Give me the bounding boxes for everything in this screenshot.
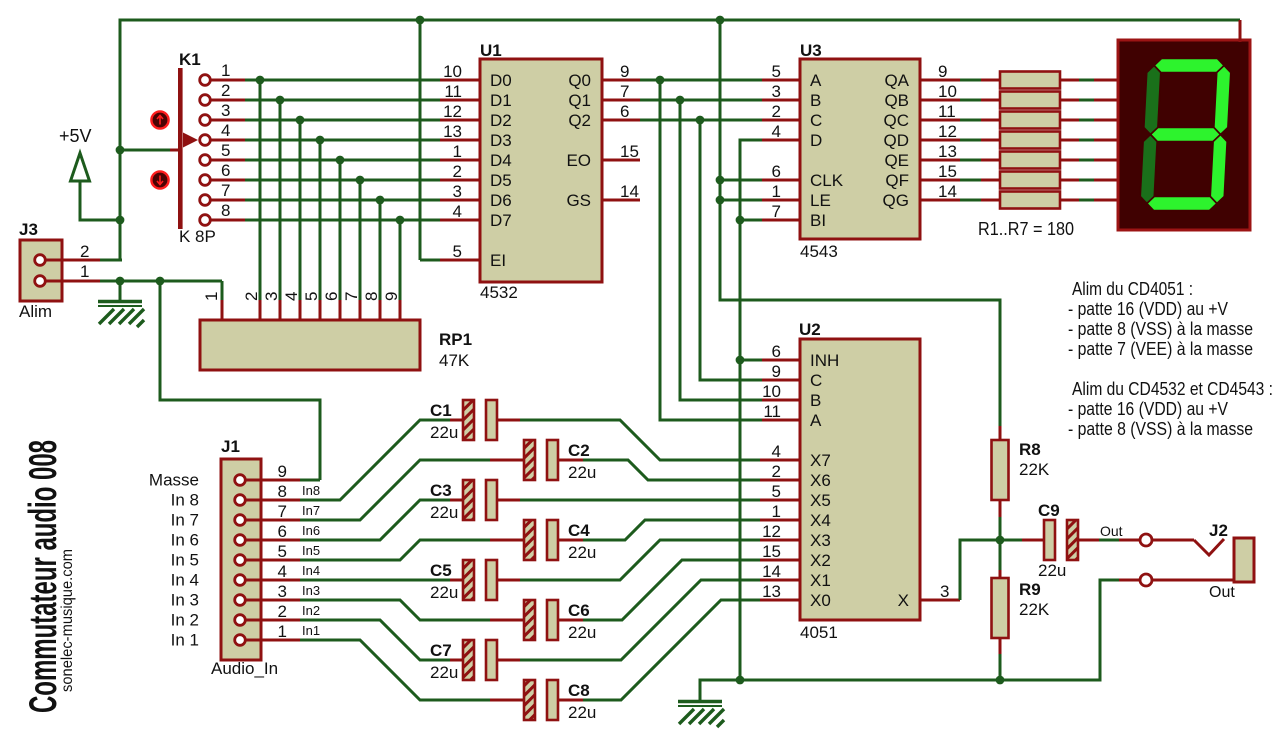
wire J1 pin9 to ground drop xyxy=(300,479,320,482)
capacitor C2 22u xyxy=(524,440,558,480)
capacitor C8 22u xyxy=(524,680,558,720)
resistor R4 xyxy=(1000,132,1060,149)
svg-text:U3: U3 xyxy=(800,41,822,60)
wire to U3 LE xyxy=(720,199,762,202)
wire In3 to C6 xyxy=(300,600,490,620)
svg-text:2: 2 xyxy=(80,242,89,261)
svg-text:C6: C6 xyxy=(568,601,590,620)
svg-text:9: 9 xyxy=(382,292,401,301)
svg-text:In7: In7 xyxy=(302,503,320,518)
U1 EI pin stub xyxy=(440,259,480,262)
svg-text:9: 9 xyxy=(938,62,947,81)
wire In4 to C5 xyxy=(300,579,450,582)
U3 QE pin stub xyxy=(920,159,960,162)
wire vertical to RP1 pin 2 xyxy=(259,80,262,300)
wire C5 to X3 xyxy=(520,540,760,580)
RP1 pin 5 stub xyxy=(319,300,322,321)
svg-text:C5: C5 xyxy=(430,561,452,580)
J1 pin 2 stub xyxy=(246,619,300,622)
svg-text:9: 9 xyxy=(278,462,287,481)
K1 contact circle 1 xyxy=(200,75,211,86)
svg-text:Alim: Alim xyxy=(19,302,52,321)
svg-text:1: 1 xyxy=(772,182,781,201)
svg-text:C: C xyxy=(810,371,822,390)
wire K1-3 to U1 D2 xyxy=(245,119,440,122)
svg-text:X3: X3 xyxy=(810,531,831,550)
svg-text:C8: C8 xyxy=(568,681,590,700)
svg-text:In 1: In 1 xyxy=(171,631,199,650)
wire U1 Q0 to U3 xyxy=(640,79,762,82)
resistor R2 xyxy=(1000,92,1060,109)
svg-text:B: B xyxy=(810,91,821,110)
svg-text:1: 1 xyxy=(278,622,287,641)
U1 EO pin stub xyxy=(602,159,640,162)
J1 pad 1 xyxy=(235,635,246,646)
C2 left lead xyxy=(490,459,524,462)
svg-text:B: B xyxy=(810,391,821,410)
capacitor C5 22u xyxy=(463,560,497,600)
J1 pad 7 xyxy=(235,515,246,526)
svg-text:13: 13 xyxy=(762,582,781,601)
connector J2 body xyxy=(1234,538,1254,582)
K1 down button xyxy=(151,171,168,188)
wire Q2 to U2 C xyxy=(700,120,762,380)
svg-text:D4: D4 xyxy=(490,151,512,170)
svg-text:6: 6 xyxy=(620,102,629,121)
svg-text:EI: EI xyxy=(490,251,506,270)
svg-text:2: 2 xyxy=(221,81,230,100)
junction INH / ground bus xyxy=(736,356,745,365)
svg-text:8: 8 xyxy=(362,292,381,301)
svg-text:INH: INH xyxy=(810,351,839,370)
RP1 pin 6 stub xyxy=(339,300,342,321)
svg-text:4051: 4051 xyxy=(800,623,838,642)
C8 left lead xyxy=(490,699,524,702)
wire C6 to X2 xyxy=(583,560,760,620)
U2 X pin stub row 480 xyxy=(760,479,800,482)
resistor R1 xyxy=(1000,72,1060,89)
svg-text:QB: QB xyxy=(884,91,909,110)
U2 A pin stub xyxy=(762,419,800,422)
svg-text:Alim du CD4532 et CD4543 :: Alim du CD4532 et CD4543 : xyxy=(1072,379,1273,399)
U2 B pin stub xyxy=(762,399,800,402)
svg-text:2: 2 xyxy=(278,602,287,621)
U1 Q2 pin stub xyxy=(602,119,640,122)
wire R9 to ground rail xyxy=(999,654,1002,680)
svg-text:X4: X4 xyxy=(810,511,831,530)
svg-text:11: 11 xyxy=(938,102,956,121)
C1 left lead xyxy=(450,419,463,422)
U3 QF pin stub xyxy=(920,179,960,182)
svg-text:12: 12 xyxy=(938,122,957,141)
capacitor C1 22u xyxy=(463,400,497,440)
C7 left lead xyxy=(450,659,463,662)
svg-text:6: 6 xyxy=(322,292,341,301)
U3 CLK pin stub xyxy=(762,179,800,182)
svg-text:In3: In3 xyxy=(302,583,320,598)
U2 INH pin stub xyxy=(762,359,800,362)
junction row 220 / RP1 drop xyxy=(396,216,405,225)
junction Q2 / U2 address drop xyxy=(696,116,705,125)
svg-text:D3: D3 xyxy=(490,131,512,150)
svg-text:3: 3 xyxy=(221,101,230,120)
svg-text:3: 3 xyxy=(940,582,949,601)
junction ground bus / rail xyxy=(736,676,745,685)
U2 X pin stub row 500 xyxy=(760,499,800,502)
wire resistor to display row 80 xyxy=(1079,79,1094,82)
svg-text:7: 7 xyxy=(620,82,629,101)
wire +5V top rail and left vertical to J3 pin 2 xyxy=(100,20,1240,260)
svg-text:22u: 22u xyxy=(430,423,458,442)
svg-text:A: A xyxy=(810,71,822,90)
svg-text:K1: K1 xyxy=(179,50,201,69)
wire U1 Q2 to U3 xyxy=(640,119,762,122)
svg-text:X5: X5 xyxy=(810,491,831,510)
svg-text:5: 5 xyxy=(221,141,230,160)
svg-text:47K: 47K xyxy=(439,351,470,370)
svg-text:QC: QC xyxy=(884,111,910,130)
RP1 pin 1 stub xyxy=(221,300,224,321)
display pin stub row 200 xyxy=(1094,199,1119,202)
svg-text:8: 8 xyxy=(278,482,287,501)
svg-text:RP1: RP1 xyxy=(439,330,472,349)
junction row 180 / RP1 drop xyxy=(356,176,365,185)
svg-text:R8: R8 xyxy=(1019,440,1041,459)
display pin stub row 140 xyxy=(1094,139,1119,142)
svg-text:C9: C9 xyxy=(1038,501,1060,520)
svg-text:J1: J1 xyxy=(221,437,240,456)
junction row 100 / RP1 drop xyxy=(276,96,285,105)
IC U1 4532 body xyxy=(480,59,602,282)
svg-text:- patte 16 (VDD) au +V: - patte 16 (VDD) au +V xyxy=(1068,299,1228,319)
J1 pad 3 xyxy=(235,595,246,606)
svg-text:10: 10 xyxy=(443,62,462,81)
wire In7 to C2 xyxy=(300,460,490,520)
U3 QC pin stub xyxy=(920,119,960,122)
junction Q1 / U2 address drop xyxy=(676,96,685,105)
svg-text:12: 12 xyxy=(762,522,781,541)
junction BI / ground bus xyxy=(736,216,745,225)
svg-text:Out: Out xyxy=(1209,584,1235,601)
wire vertical to RP1 pin 9 xyxy=(399,220,402,300)
wire Q1 to U2 B xyxy=(680,100,762,400)
wire C4 to X4 xyxy=(583,520,760,540)
U2 X pin stub row 560 xyxy=(760,559,800,562)
wire audio ground to J1 pin 9 xyxy=(160,281,320,480)
svg-text:K 8P: K 8P xyxy=(179,227,216,246)
svg-text:In 6: In 6 xyxy=(171,531,199,550)
U2 X output stub xyxy=(920,599,960,602)
svg-text:13: 13 xyxy=(938,142,957,161)
resistor right lead row 80 xyxy=(1060,79,1079,82)
svg-text:J3: J3 xyxy=(19,220,38,239)
svg-text:15: 15 xyxy=(938,162,957,181)
IC U2 4051 body xyxy=(800,339,920,620)
C8 right lead xyxy=(558,699,583,702)
svg-text:22u: 22u xyxy=(430,503,458,522)
C5 left lead xyxy=(450,579,463,582)
svg-text:Q1: Q1 xyxy=(568,91,591,110)
J3 pad 2 xyxy=(35,255,46,266)
wire bottom ground rail xyxy=(700,580,1119,700)
junction CLK xyxy=(716,176,725,185)
svg-text:LE: LE xyxy=(810,191,831,210)
wire K1-4 to U1 D3 xyxy=(245,139,440,142)
display common pin from +V rail xyxy=(1239,20,1242,42)
resistor left lead row 160 xyxy=(981,159,1000,162)
svg-text:sonelec-musique.com: sonelec-musique.com xyxy=(59,549,76,692)
wire J3 pin2 to +V xyxy=(100,259,122,262)
svg-text:X6: X6 xyxy=(810,471,831,490)
svg-text:U2: U2 xyxy=(799,320,821,339)
RP1 pin 8 stub xyxy=(379,300,382,321)
svg-text:1: 1 xyxy=(221,61,230,80)
resistor right lead row 160 xyxy=(1060,159,1079,162)
K1 pin 3 stub xyxy=(210,119,245,122)
svg-text:4: 4 xyxy=(282,292,301,301)
junction Q0 / U2 address drop xyxy=(656,76,665,85)
J1 pad 4 xyxy=(235,575,246,586)
J1 pin 6 stub xyxy=(246,539,300,542)
svg-text:C1: C1 xyxy=(430,401,452,420)
svg-text:In2: In2 xyxy=(302,603,320,618)
svg-text:J2: J2 xyxy=(1209,521,1228,540)
C4 left lead xyxy=(490,539,524,542)
wire vertical to RP1 pin 8 xyxy=(379,200,382,300)
U1 D7 pin stub xyxy=(440,219,480,222)
K1 pin 4 stub xyxy=(210,139,245,142)
U2 X pin stub row 540 xyxy=(760,539,800,542)
wire resistor to display row 140 xyxy=(1079,139,1094,142)
J1 pin 4 stub xyxy=(246,579,300,582)
svg-text:Masse: Masse xyxy=(149,471,199,490)
svg-text:X0: X0 xyxy=(810,591,831,610)
wire K1-1 to U1 D0 xyxy=(245,79,440,82)
svg-text:1: 1 xyxy=(772,502,781,521)
svg-text:3: 3 xyxy=(278,582,287,601)
U1 D0 pin stub xyxy=(440,79,480,82)
svg-text:5: 5 xyxy=(453,242,462,261)
svg-text:GS: GS xyxy=(566,191,591,210)
U1 D6 pin stub xyxy=(440,199,480,202)
svg-text:In 7: In 7 xyxy=(171,511,199,530)
svg-text:D7: D7 xyxy=(490,211,512,230)
svg-text:BI: BI xyxy=(810,211,826,230)
wire QA to R9 xyxy=(960,79,981,82)
wire to U1 EI pin xyxy=(420,259,440,262)
resistor right lead row 200 xyxy=(1060,199,1079,202)
svg-text:5: 5 xyxy=(302,292,321,301)
wire In2 to C7 xyxy=(300,620,450,660)
wire U1 Q1 to U3 xyxy=(640,99,762,102)
J1 pin 7 stub xyxy=(246,519,300,522)
R9 bottom lead xyxy=(999,638,1002,654)
U2 X pin stub row 580 xyxy=(760,579,800,582)
resistor right lead row 140 xyxy=(1060,139,1079,142)
IC U3 4543 body xyxy=(800,59,920,239)
svg-text:1: 1 xyxy=(202,292,221,301)
svg-text:In 4: In 4 xyxy=(171,571,199,590)
wire vertical to RP1 pin 5 xyxy=(319,140,322,300)
C5 right lead xyxy=(497,579,520,582)
resistor R5 xyxy=(1000,152,1060,169)
wire resistor to display row 200 xyxy=(1079,199,1094,202)
junction top rail / U1 EI drop xyxy=(416,16,425,25)
svg-text:In8: In8 xyxy=(302,483,320,498)
svg-text:QF: QF xyxy=(885,171,909,190)
U2 X pin stub row 460 xyxy=(760,459,800,462)
K1 common pin stub xyxy=(170,149,180,152)
svg-text:5: 5 xyxy=(772,482,781,501)
wire In6 to C3 xyxy=(300,500,450,540)
wire vertical to RP1 pin 3 xyxy=(279,100,282,300)
svg-text:22u: 22u xyxy=(568,463,596,482)
wire vertical to RP1 pin 6 xyxy=(339,160,342,300)
svg-text:- patte 7 (VEE) à la masse: - patte 7 (VEE) à la masse xyxy=(1068,339,1253,359)
wire R8 to node xyxy=(999,517,1002,540)
svg-text:Q0: Q0 xyxy=(568,71,591,90)
svg-text:5: 5 xyxy=(278,542,287,561)
K1 contact circle 7 xyxy=(200,195,211,206)
junction row 120 / RP1 drop xyxy=(296,116,305,125)
svg-text:Alim du CD4051 :: Alim du CD4051 : xyxy=(1072,279,1193,299)
RP1 pin 3 stub xyxy=(279,300,282,321)
svg-text:In 8: In 8 xyxy=(171,491,199,510)
resistor right lead row 120 xyxy=(1060,119,1079,122)
ground symbol bottom xyxy=(678,702,724,728)
resistor left lead row 200 xyxy=(981,199,1000,202)
svg-text:In1: In1 xyxy=(302,623,320,638)
wire vertical to RP1 pin 4 xyxy=(299,120,302,300)
wire resistor to display row 100 xyxy=(1079,99,1094,102)
wire C2 to X6 xyxy=(583,460,760,480)
svg-text:4: 4 xyxy=(278,562,287,581)
wire vertical to RP1 pin 7 xyxy=(359,180,362,300)
svg-text:4: 4 xyxy=(772,442,781,461)
U1 D3 pin stub xyxy=(440,139,480,142)
svg-text:Audio_In: Audio_In xyxy=(211,659,278,678)
svg-text:D2: D2 xyxy=(490,111,512,130)
J1 pad 5 xyxy=(235,555,246,566)
U3 pin stub row 100 xyxy=(762,99,800,102)
svg-text:22u: 22u xyxy=(568,623,596,642)
C6 left lead xyxy=(490,619,524,622)
wire resistor to display row 120 xyxy=(1079,119,1094,122)
wire stub to ground symbol xyxy=(119,281,122,300)
J2 sleeve wire xyxy=(1119,579,1234,582)
junction top rail / CLK-LE drop xyxy=(716,16,725,25)
svg-text:9: 9 xyxy=(620,62,629,81)
U1 GS pin stub xyxy=(602,199,640,202)
svg-text:4: 4 xyxy=(221,121,230,140)
K1 contact circle 3 xyxy=(200,115,211,126)
wire INH to ground bus xyxy=(740,359,762,362)
svg-text:+5V: +5V xyxy=(59,126,92,146)
wire QD to R12 xyxy=(960,139,981,142)
svg-text:A: A xyxy=(810,411,822,430)
U1 Q1 pin stub xyxy=(602,99,640,102)
svg-text:22K: 22K xyxy=(1019,600,1050,619)
C6 right lead xyxy=(558,619,583,622)
svg-text:13: 13 xyxy=(443,122,462,141)
K1 wiper arrow xyxy=(183,133,198,148)
wire BI to ground bus xyxy=(740,219,762,222)
junction row 160 / RP1 drop xyxy=(336,156,345,165)
svg-text:X2: X2 xyxy=(810,551,831,570)
wire In5 to C4 xyxy=(300,540,490,560)
RP1 pin 2 stub xyxy=(259,300,262,321)
svg-text:22u: 22u xyxy=(568,543,596,562)
K1 up button xyxy=(151,111,168,128)
K1 pin 1 stub xyxy=(210,79,245,82)
K1 contact circle 4 xyxy=(200,135,211,146)
display pin stub row 180 xyxy=(1094,179,1119,182)
R8 bottom lead xyxy=(999,500,1002,517)
C9 right lead xyxy=(1078,539,1099,542)
svg-text:D1: D1 xyxy=(490,91,512,110)
U3 D pin stub xyxy=(762,139,800,142)
svg-text:In5: In5 xyxy=(302,543,320,558)
RP1 pin 9 stub xyxy=(399,300,402,321)
resistor R9 xyxy=(992,578,1009,638)
U1 D1 pin stub xyxy=(440,99,480,102)
J1 pad 8 xyxy=(235,495,246,506)
svg-text:D: D xyxy=(810,131,822,150)
K1 contact circle 2 xyxy=(200,95,211,106)
K1 pin 8 stub xyxy=(210,219,245,222)
U3 QA pin stub xyxy=(920,79,960,82)
capacitor C9 22u xyxy=(1044,520,1078,560)
wire node to R9 xyxy=(999,540,1002,570)
junction +V / +5V symbol xyxy=(116,216,125,225)
svg-text:In6: In6 xyxy=(302,523,320,538)
svg-text:C7: C7 xyxy=(430,641,452,660)
resistor left lead row 140 xyxy=(981,139,1000,142)
wire C8 to X0 xyxy=(583,600,760,700)
svg-text:C4: C4 xyxy=(568,521,590,540)
C2 right lead xyxy=(558,459,583,462)
svg-text:QE: QE xyxy=(884,151,909,170)
resistor R6 xyxy=(1000,172,1060,189)
junction row 200 / RP1 drop xyxy=(376,196,385,205)
svg-text:R1..R7 = 180: R1..R7 = 180 xyxy=(978,219,1074,239)
wire node to C9 xyxy=(1000,539,1022,542)
display pin stub row 80 xyxy=(1094,79,1119,82)
svg-text:X7: X7 xyxy=(810,451,831,470)
power symbol +5V xyxy=(71,153,121,220)
U3 pin stub row 80 xyxy=(762,79,800,82)
svg-text:4543: 4543 xyxy=(800,242,838,261)
svg-text:D6: D6 xyxy=(490,191,512,210)
wire K1-5 to U1 D4 xyxy=(245,159,440,162)
svg-text:C2: C2 xyxy=(568,441,590,460)
svg-text:D5: D5 xyxy=(490,171,512,190)
resistor left lead row 100 xyxy=(981,99,1000,102)
J2 pad tip xyxy=(1140,534,1152,546)
display AFF1 body xyxy=(1118,40,1250,230)
wire resistor to display row 160 xyxy=(1079,159,1094,162)
svg-text:In 3: In 3 xyxy=(171,591,199,610)
RP1 pin 7 stub xyxy=(359,300,362,321)
svg-text:6: 6 xyxy=(221,161,230,180)
J3 pad 1 xyxy=(35,276,46,287)
wire QG to R14 xyxy=(960,199,981,202)
U3 QD pin stub xyxy=(920,139,960,142)
U1 D2 pin stub xyxy=(440,119,480,122)
svg-text:C: C xyxy=(810,111,822,130)
wire C7 to X1 xyxy=(520,580,760,660)
svg-text:2: 2 xyxy=(772,102,781,121)
